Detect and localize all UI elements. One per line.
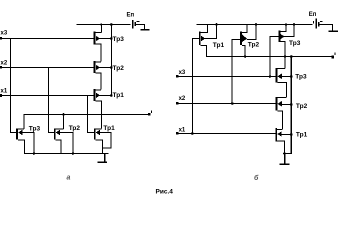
- node junction dot: [110, 66, 113, 69]
- node junction dot: [215, 23, 218, 26]
- svg-text:х1: х1: [179, 128, 186, 134]
- node junction dot: [285, 23, 287, 25]
- svg-text:Тр2: Тр2: [296, 103, 308, 110]
- node junction dot: [255, 23, 258, 26]
- svg-text:х3: х3: [179, 70, 186, 76]
- node x3 input terminal: [0, 37, 2, 40]
- svg-text:Тр2: Тр2: [69, 125, 81, 132]
- transistor Tp1 chain A: [94, 89, 96, 101]
- wire long vertical A rail to output: [111, 24, 112, 96]
- svg-text:х2: х2: [1, 61, 8, 67]
- transistor Tp2 top row B: [240, 32, 242, 45]
- transistor Tp2 chain A: [94, 61, 96, 73]
- svg-text:Тр1: Тр1: [213, 42, 225, 49]
- node junction dot: [290, 75, 293, 78]
- wire x3 input line B: [177, 76, 276, 77]
- wire x1 riser to Tp1 gate B: [192, 38, 193, 134]
- transistor Tp1 chain B: [275, 128, 277, 142]
- node junction dot: [100, 23, 102, 25]
- transistor Tp2 chain B: [276, 97, 278, 111]
- node junction dot: [284, 55, 287, 58]
- transistor Tp3 chain B: [276, 68, 278, 82]
- svg-text:Тр1: Тр1: [296, 131, 308, 138]
- wire output line A: [24, 114, 151, 115]
- transistor Tp3 bottom row A: [16, 128, 18, 139]
- transistor Tp1 bottom row A: [94, 128, 96, 139]
- node x2 input terminal: [0, 66, 2, 69]
- node junction dot: [290, 103, 293, 106]
- svg-text:Рис.4: Рис.4: [156, 189, 174, 196]
- ground bottom A: [104, 153, 105, 162]
- wire x2 riser to Tp2 gate B: [232, 39, 233, 104]
- node junction dot: [33, 152, 36, 155]
- wire x3 riser to Tp3 gate B: [269, 36, 270, 77]
- ground bottom B: [284, 153, 285, 164]
- svg-text:х3: х3: [1, 31, 8, 37]
- wire battery to ground B: [320, 24, 333, 25]
- svg-text:Тр2: Тр2: [248, 42, 260, 49]
- node junction dot: [290, 133, 293, 136]
- node junction dot: [110, 37, 113, 40]
- svg-text:Еп: Еп: [309, 12, 317, 18]
- svg-text:а: а: [67, 174, 71, 181]
- node x1 input terminal: [0, 94, 2, 97]
- ground at battery A: [141, 29, 150, 31]
- node x2 input terminal B: [176, 102, 179, 105]
- svg-text:б: б: [254, 174, 259, 182]
- wire bottom link B: [284, 153, 292, 154]
- transistor Tp3 top row B: [279, 31, 281, 43]
- node junction dot: [110, 94, 113, 97]
- wire x1 input line B: [177, 133, 276, 134]
- node x3 input terminal B: [176, 75, 179, 78]
- wire x2 input line B: [177, 103, 276, 104]
- svg-text:Тр2: Тр2: [113, 65, 125, 72]
- svg-text:Тр3: Тр3: [295, 74, 307, 81]
- svg-text:Еп: Еп: [127, 13, 135, 19]
- node junction dot: [191, 132, 194, 135]
- wire x3 drop to Tp3 gate: [10, 38, 11, 133]
- wire bottom common rail A: [24, 153, 109, 154]
- node junction dot: [231, 102, 234, 105]
- svg-text:Тр3: Тр3: [289, 40, 301, 47]
- node junction dot: [244, 55, 247, 58]
- wire x3 input line: [0, 38, 94, 39]
- wire x1 input line: [0, 95, 94, 96]
- node junction dot: [293, 23, 296, 26]
- ground at battery B: [329, 30, 339, 32]
- wire x1 drop to Tp1 gate: [87, 95, 88, 133]
- svg-text:х1: х1: [1, 89, 8, 95]
- svg-text:х2: х2: [179, 96, 186, 102]
- wire battery to ground A: [136, 24, 144, 25]
- battery En A: [132, 20, 134, 29]
- transistor Tp3 chain A: [94, 32, 96, 45]
- transistor Tp2 bottom row A: [54, 128, 56, 139]
- svg-text:Тр3: Тр3: [29, 125, 41, 132]
- node junction dot: [62, 113, 65, 116]
- wire x2 drop to Tp2 gate: [48, 67, 49, 133]
- node junction dot: [283, 152, 286, 155]
- node junction dots A: [110, 23, 113, 26]
- svg-text:Тр1: Тр1: [103, 125, 115, 132]
- node junction dot: [290, 55, 293, 58]
- transistor Tp1 top row B: [199, 32, 201, 45]
- wire long vertical B bus to ground: [291, 56, 292, 154]
- wire top supply rail A: [77, 24, 131, 25]
- node x1 input terminal B: [176, 132, 179, 135]
- wire x2 input line: [0, 67, 94, 68]
- svg-text:Тр3: Тр3: [113, 36, 125, 43]
- wire top supply rail B: [197, 24, 313, 25]
- wire output bus B: [206, 56, 333, 57]
- node junction dot: [72, 152, 75, 155]
- node junction dot: [269, 75, 272, 78]
- svg-text:Тр1: Тр1: [113, 92, 125, 99]
- battery En B: [313, 21, 314, 24]
